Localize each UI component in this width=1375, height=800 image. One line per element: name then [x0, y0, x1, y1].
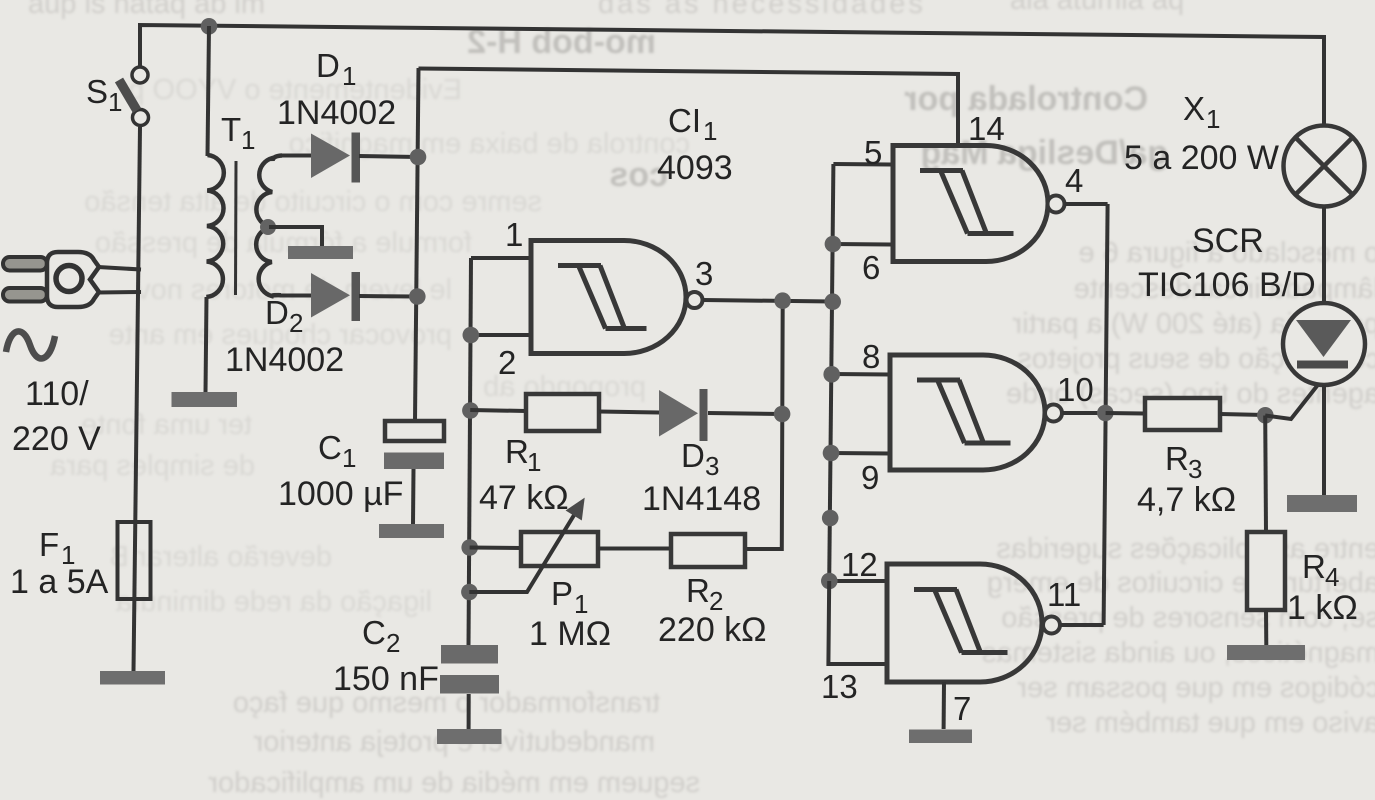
node wiper bus	[461, 584, 478, 601]
svg-text:SCR: SCR	[1192, 222, 1264, 260]
svg-text:3: 3	[705, 451, 719, 481]
pin number 7	[953, 690, 971, 727]
transformer T1 primary winding	[206, 155, 224, 297]
pin number 9	[861, 459, 879, 496]
NAND gate U1a	[531, 241, 703, 354]
resistor R3	[1145, 398, 1220, 430]
wire C1 to ground	[411, 469, 416, 524]
svg-text:T: T	[221, 111, 241, 148]
wire D3 to link	[708, 413, 782, 414]
svg-text:1N4002: 1N4002	[225, 341, 344, 379]
wire pin 12	[829, 579, 887, 583]
svg-text:4: 4	[1065, 162, 1083, 199]
wire T1 primary bottom	[206, 297, 207, 392]
svg-text:4: 4	[1325, 562, 1339, 592]
label SCR	[1138, 222, 1316, 304]
svg-text:Controlada por: Controlada por	[904, 80, 1148, 118]
wire center tap to ground	[269, 227, 322, 247]
svg-text:47 kΩ: 47 kΩ	[479, 479, 569, 517]
svg-text:150 nF: 150 nF	[333, 660, 439, 698]
node D2 bus	[409, 288, 426, 305]
label D1	[277, 47, 396, 132]
resistor R1	[526, 394, 599, 431]
pin number 8	[862, 338, 880, 375]
wire pin 7	[942, 682, 946, 729]
svg-text:R: R	[1165, 440, 1189, 477]
svg-text:D: D	[316, 47, 340, 84]
wire secondary top to D1	[280, 154, 311, 158]
ground under C2	[437, 729, 502, 744]
svg-text:1: 1	[342, 443, 356, 473]
svg-text:das as necessidades: das as necessidades	[598, 0, 926, 20]
svg-text:12: 12	[841, 546, 878, 583]
svg-text:F: F	[39, 526, 59, 563]
diode D1	[311, 133, 360, 183]
wire pin 10 output	[1063, 411, 1106, 415]
wire link vertical and to R2	[745, 301, 783, 550]
node pin9 bus	[823, 445, 840, 462]
wire R3 to node	[1220, 414, 1265, 415]
wire pin 5	[833, 162, 893, 167]
svg-text:aup is nataq ab im: aup is nataq ab im	[28, 0, 265, 20]
svg-text:C: C	[362, 614, 386, 651]
wire input bus vertical	[829, 164, 833, 581]
resistor R2	[671, 534, 745, 567]
svg-text:2: 2	[289, 308, 303, 338]
node R1 bus	[462, 402, 479, 419]
node D1 bus	[410, 149, 427, 166]
SCR TIC106	[1283, 303, 1365, 385]
wire rectifier bus vertical	[415, 68, 419, 421]
node junction top rail / T1 primary	[201, 18, 218, 35]
svg-text:1: 1	[108, 87, 122, 117]
pin number 14	[968, 110, 1005, 147]
pin number 6	[862, 249, 880, 286]
node pin10 output bus	[1097, 405, 1114, 422]
svg-text:TIC106 B/D: TIC106 B/D	[1138, 266, 1316, 304]
pin number 2	[498, 344, 516, 381]
svg-text:R: R	[686, 572, 710, 609]
label S1	[86, 73, 122, 117]
ground center tap	[288, 246, 353, 259]
wire plug bottom	[98, 290, 141, 295]
svg-text:1: 1	[241, 125, 255, 155]
node T1 center tap	[260, 219, 276, 235]
ground under T1 primary	[172, 392, 238, 407]
transformer T1 core	[234, 161, 238, 295]
label R2	[658, 572, 767, 649]
svg-text:2: 2	[386, 628, 400, 658]
svg-text:aviso em que também ser: aviso em que também ser	[1046, 707, 1375, 739]
wire bus to R1	[470, 410, 526, 411]
svg-text:5: 5	[864, 134, 882, 171]
label C2	[333, 614, 439, 698]
node pin8 bus	[823, 366, 840, 383]
svg-text:D: D	[265, 294, 289, 331]
wire P1 wiper	[469, 498, 584, 592]
wire SCR cathode to ground	[1322, 385, 1326, 495]
svg-text:11: 11	[1047, 576, 1081, 613]
pin number 1	[505, 216, 523, 253]
wire C2 to ground	[467, 694, 471, 729]
svg-text:deverão alterar B: deverão alterar B	[110, 541, 332, 573]
svg-text:D: D	[681, 437, 705, 474]
label D2	[225, 294, 344, 379]
label R3	[1137, 440, 1236, 519]
node R3 R4 gate	[1257, 407, 1274, 424]
svg-text:R: R	[505, 433, 529, 470]
transformer T1 secondary winding	[256, 156, 282, 297]
svg-text:6: 6	[862, 249, 880, 286]
svg-text:1: 1	[1206, 104, 1220, 134]
svg-text:1 a 5A: 1 a 5A	[10, 563, 109, 601]
wire pin 6	[833, 242, 893, 247]
label P1	[529, 575, 611, 653]
wire pin 13 loop	[828, 581, 887, 664]
svg-text:1000 µF: 1000 µF	[278, 475, 403, 513]
lamp X1	[1284, 126, 1365, 207]
fuse F1	[118, 522, 151, 599]
pin number 13	[821, 668, 858, 705]
svg-text:semre com o circuito de alta t: semre com o circuito de alta tensão	[84, 186, 542, 218]
pin number 4	[1065, 162, 1083, 199]
svg-text:1 kΩ: 1 kΩ	[1287, 589, 1358, 627]
node pin3 bus	[824, 293, 841, 310]
NAND gate U1b	[893, 146, 1065, 262]
svg-text:2: 2	[498, 344, 516, 381]
wire Vdd rail to pin 14	[419, 69, 959, 147]
ground under C1	[379, 524, 444, 538]
diode D2	[311, 272, 360, 321]
pin number 5	[864, 134, 882, 171]
node P1 bus	[461, 539, 478, 556]
svg-text:10: 10	[1057, 371, 1094, 408]
svg-text:1: 1	[527, 447, 541, 477]
wire pin 1	[471, 256, 532, 260]
wire SCR gate lead	[1265, 372, 1328, 419]
NAND gate U1d	[887, 564, 1060, 682]
svg-text:8: 8	[862, 338, 880, 375]
ground under R4	[1227, 645, 1305, 660]
label C1	[278, 429, 403, 513]
pin number 11	[1047, 576, 1081, 613]
switch S1	[119, 67, 149, 126]
svg-text:4,7 kΩ: 4,7 kΩ	[1137, 481, 1236, 519]
wire pin 3 output	[703, 300, 833, 302]
resistor R4	[1247, 532, 1285, 610]
wire R1 to D3	[599, 412, 659, 413]
svg-text:220 kΩ: 220 kΩ	[658, 611, 767, 649]
svg-text:5 a 200 W: 5 a 200 W	[1124, 139, 1279, 177]
svg-text:1: 1	[703, 116, 717, 146]
node pin2 bus	[463, 327, 480, 344]
label CI1 4093	[657, 102, 733, 187]
wire lamp to SCR	[1322, 207, 1326, 303]
node pin12 bus	[821, 573, 838, 590]
node D3 link	[774, 406, 791, 423]
wire pin 4 output	[1065, 202, 1108, 206]
wire pin 11 output	[1061, 623, 1104, 627]
svg-text:13: 13	[821, 668, 858, 705]
potentiometer P1	[521, 532, 598, 566]
AC plug	[3, 252, 99, 307]
node pin6 bus	[825, 236, 842, 253]
svg-text:220 V: 220 V	[12, 420, 101, 458]
wire P1 to R2	[598, 547, 671, 551]
svg-text:1: 1	[505, 216, 523, 253]
svg-text:le levem de motores nov: le levem de motores nov	[136, 274, 452, 306]
wire left loop bus	[469, 258, 472, 646]
ground pin 7	[909, 730, 972, 744]
AC sine symbol	[6, 331, 55, 358]
svg-text:3: 3	[695, 255, 713, 292]
label T1	[221, 111, 255, 155]
pin number 10	[1057, 371, 1094, 408]
wire D2 to bus	[359, 294, 418, 299]
wire secondary bottom to D2	[280, 294, 311, 298]
NAND gate U1c	[890, 355, 1062, 470]
wire node to R4	[1263, 416, 1268, 533]
svg-text:3: 3	[1188, 454, 1202, 484]
svg-text:ter uma fonte: ter uma fonte	[81, 409, 252, 441]
wire pin 9	[831, 451, 890, 456]
wire bus to R3	[1106, 411, 1145, 416]
svg-text:14: 14	[968, 110, 1005, 147]
diode D3	[659, 389, 708, 441]
capacitor C2	[440, 645, 499, 694]
svg-text:seguem em média de um amplific: seguem em média de um amplificador	[208, 767, 700, 799]
pin number 3	[695, 255, 713, 292]
svg-text:4093: 4093	[657, 149, 733, 187]
svg-text:R: R	[1302, 548, 1326, 585]
wire pin 2	[471, 333, 532, 337]
wire pin 8	[832, 372, 890, 377]
wire bus to P1	[470, 546, 521, 551]
label R4	[1287, 548, 1358, 627]
wire output bus vertical	[1104, 204, 1108, 625]
svg-text:S: S	[86, 73, 108, 110]
node mid bus	[822, 510, 839, 527]
svg-text:110/: 110/	[25, 375, 89, 413]
node pin3 link	[774, 292, 791, 309]
wire top rail	[140, 25, 1324, 125]
label R1	[479, 433, 569, 517]
capacitor C1	[384, 421, 444, 469]
wire R4 to ground	[1264, 610, 1268, 645]
label D3	[642, 437, 761, 518]
svg-text:9: 9	[861, 459, 879, 496]
svg-text:X: X	[1183, 90, 1205, 127]
svg-text:7: 7	[953, 690, 971, 727]
pin number 12	[841, 546, 878, 583]
label X1	[1124, 90, 1279, 177]
svg-text:1 MΩ: 1 MΩ	[529, 615, 611, 653]
svg-text:1N4002: 1N4002	[277, 94, 396, 132]
svg-text:P: P	[551, 575, 573, 612]
svg-text:1N4148: 1N4148	[642, 480, 761, 518]
svg-text:aia atumla aq: aia atumla aq	[1010, 0, 1184, 16]
svg-text:CI: CI	[668, 102, 701, 139]
wire plug top	[98, 267, 141, 270]
svg-text:C: C	[318, 429, 342, 466]
ground under F1	[100, 671, 165, 685]
ground under SCR	[1287, 495, 1357, 512]
label 110/220V	[12, 375, 101, 458]
wire D1 to bus	[359, 156, 418, 157]
svg-text:1: 1	[342, 61, 356, 91]
label F1	[10, 526, 109, 601]
wire T1 primary feed	[208, 26, 210, 156]
wire left line S1 to F1 to ground	[134, 127, 141, 671]
svg-text:códigos em que possam ser: códigos em que possam ser	[1017, 672, 1375, 704]
